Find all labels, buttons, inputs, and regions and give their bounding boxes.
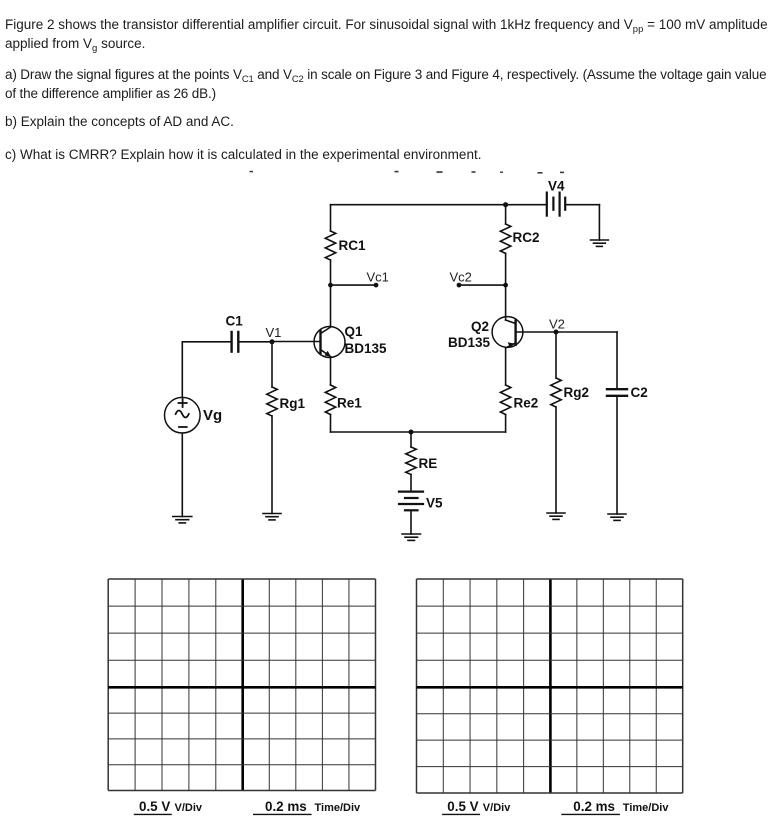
svg-text:V5: V5 [426, 496, 443, 511]
svg-text:Vg: Vg [203, 407, 222, 424]
svg-text:0.2 ms: 0.2 ms [573, 799, 615, 814]
svg-text:Q1: Q1 [345, 324, 364, 339]
svg-text:Rg2: Rg2 [564, 385, 590, 400]
svg-text:V4: V4 [548, 179, 565, 194]
svg-text:0.2 ms: 0.2 ms [265, 799, 307, 814]
svg-text:RC1: RC1 [339, 238, 366, 253]
svg-text:RE: RE [419, 456, 438, 471]
svg-text:C1: C1 [226, 314, 244, 329]
svg-text:Time/Div: Time/Div [315, 802, 362, 814]
svg-text:V2: V2 [549, 317, 565, 332]
svg-text:V/Div: V/Div [483, 802, 511, 814]
svg-text:Re2: Re2 [514, 396, 539, 411]
svg-text:BD135: BD135 [448, 335, 491, 350]
svg-text:Vc1: Vc1 [367, 270, 389, 285]
svg-text:BD135: BD135 [345, 341, 388, 356]
svg-text:V1: V1 [266, 325, 282, 340]
svg-text:0.5 V: 0.5 V [139, 799, 170, 814]
svg-text:Re1: Re1 [337, 396, 362, 411]
svg-text:Vc2: Vc2 [450, 270, 472, 285]
svg-text:Q2: Q2 [471, 319, 489, 334]
svg-text:C2: C2 [631, 385, 648, 400]
svg-text:V/Div: V/Div [175, 802, 203, 814]
svg-text:Time/Div: Time/Div [623, 802, 670, 814]
svg-text:Rg1: Rg1 [280, 396, 306, 411]
svg-text:0.5 V: 0.5 V [447, 799, 478, 814]
svg-text:RC2: RC2 [513, 230, 540, 245]
